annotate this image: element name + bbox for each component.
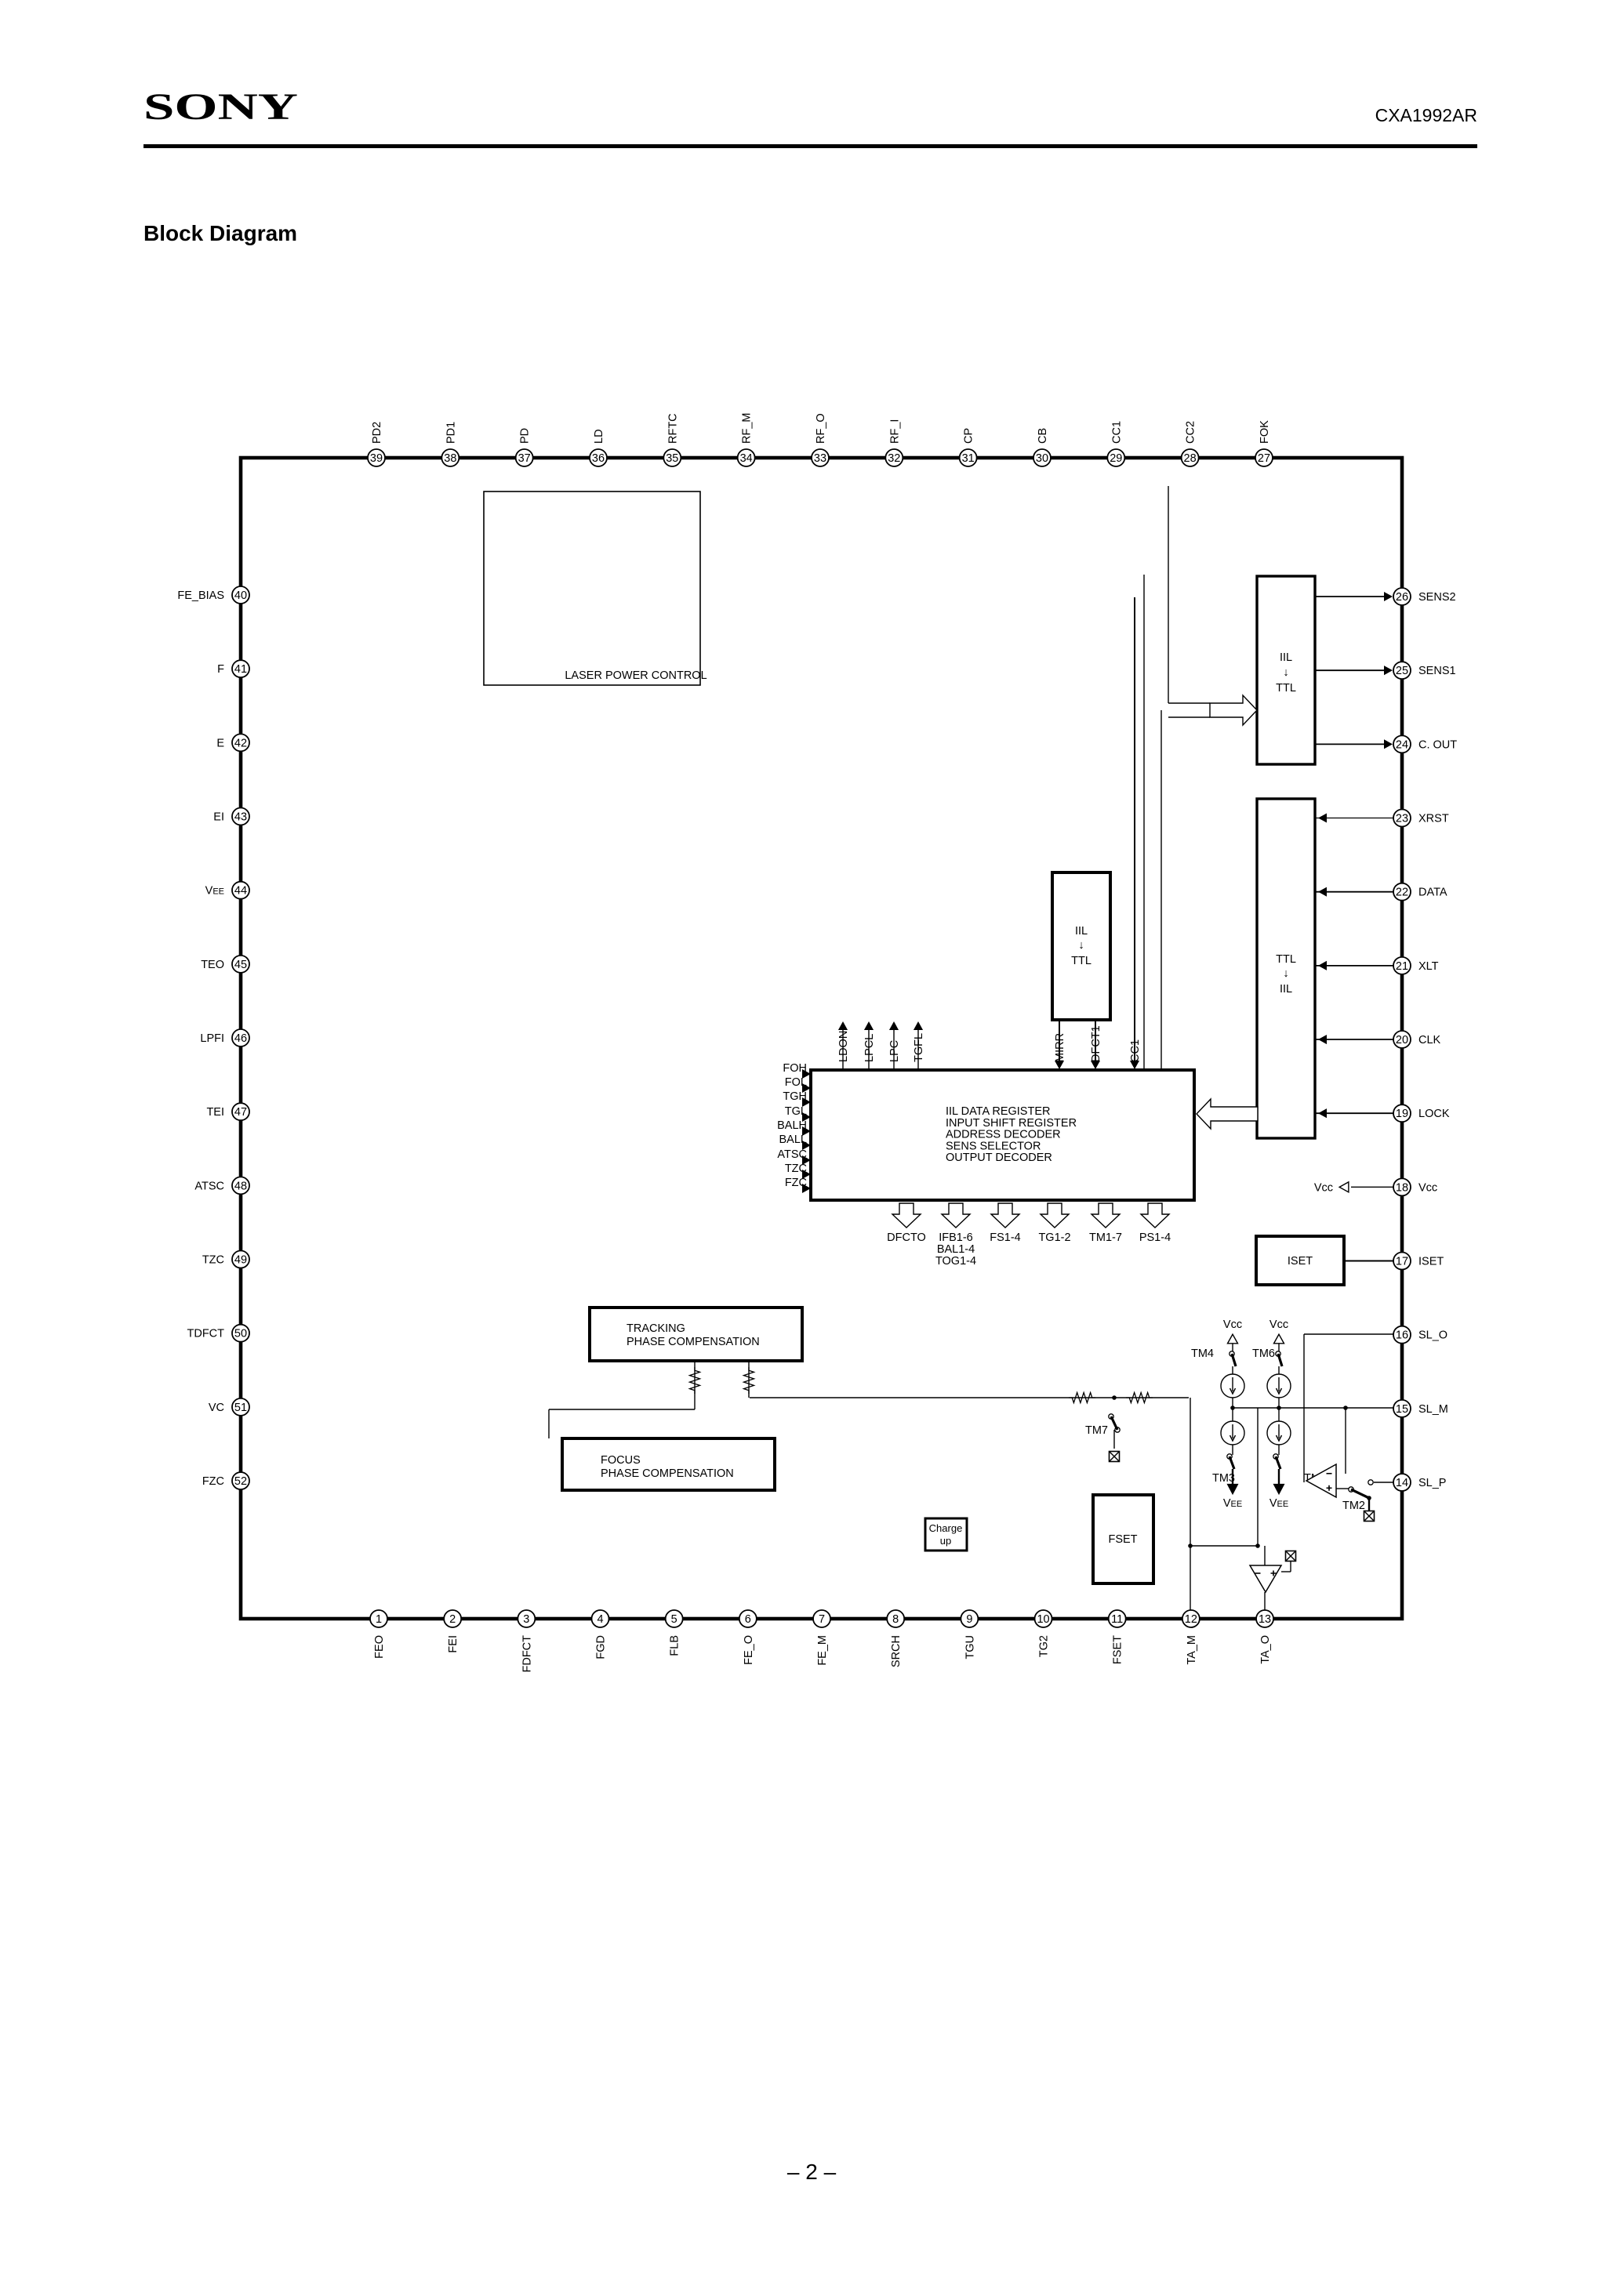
svg-text:TOG1-4: TOG1-4 [935,1255,976,1268]
svg-text:18: 18 [1396,1181,1408,1194]
svg-text:34: 34 [740,452,753,465]
svg-text:SL_O: SL_O [1418,1329,1447,1342]
svg-text:DFCTO: DFCTO [887,1231,926,1244]
svg-text:23: 23 [1396,813,1408,825]
svg-text:↓: ↓ [1283,666,1288,679]
svg-text:VEE: VEE [1269,1497,1288,1510]
svg-text:25: 25 [1396,665,1408,677]
svg-text:TA_O: TA_O [1259,1635,1272,1664]
svg-text:TM6: TM6 [1252,1347,1275,1360]
svg-text:VEE: VEE [205,885,224,898]
svg-text:TDFCT: TDFCT [187,1328,224,1340]
svg-text:TG2: TG2 [1038,1635,1051,1657]
svg-text:40: 40 [234,589,247,602]
svg-text:9: 9 [966,1613,972,1626]
svg-text:17: 17 [1396,1256,1408,1268]
svg-text:20: 20 [1396,1034,1408,1046]
svg-text:PHASE COMPENSATION: PHASE COMPENSATION [601,1467,734,1480]
svg-text:MIRR: MIRR [1054,1033,1066,1062]
svg-text:22: 22 [1396,887,1408,899]
svg-text:Vcc: Vcc [1418,1181,1437,1194]
svg-text:FE_O: FE_O [743,1635,755,1665]
svg-text:1: 1 [376,1613,382,1626]
svg-text:TGU: TGU [964,1635,976,1659]
svg-text:TRACKING: TRACKING [627,1322,685,1335]
svg-text:OUTPUT DECODER: OUTPUT DECODER [946,1152,1052,1164]
svg-text:52: 52 [234,1475,247,1488]
svg-text:33: 33 [814,452,826,465]
svg-text:49: 49 [234,1254,247,1267]
svg-text:E: E [216,737,224,749]
svg-text:41: 41 [234,663,247,676]
svg-text:TEI: TEI [206,1106,224,1119]
svg-text:27: 27 [1258,452,1270,465]
svg-text:ISET: ISET [1288,1255,1313,1268]
svg-text:Vcc: Vcc [1223,1318,1242,1331]
svg-text:46: 46 [234,1032,247,1045]
svg-text:TG1-2: TG1-2 [1038,1231,1070,1244]
svg-text:IIL: IIL [1280,651,1292,664]
svg-text:↓: ↓ [1078,939,1084,952]
svg-text:SL_M: SL_M [1418,1403,1448,1416]
svg-text:CP: CP [963,428,975,444]
svg-text:43: 43 [234,811,247,824]
svg-text:24: 24 [1396,738,1408,751]
svg-text:LPCL: LPCL [863,1034,876,1062]
svg-text:TTL: TTL [1276,953,1296,966]
svg-text:FEI: FEI [447,1635,459,1653]
svg-text:TA_M: TA_M [1186,1635,1198,1665]
svg-text:SENS2: SENS2 [1418,591,1456,604]
svg-text:IIL: IIL [1280,983,1292,996]
svg-text:32: 32 [888,452,900,465]
svg-text:Charge: Charge [929,1522,963,1534]
svg-text:10: 10 [1037,1613,1049,1626]
svg-text:13: 13 [1259,1613,1271,1626]
svg-text:FDFCT: FDFCT [521,1635,533,1673]
svg-text:11: 11 [1111,1613,1123,1626]
svg-text:42: 42 [234,737,247,749]
svg-text:4: 4 [597,1613,603,1626]
svg-text:FLB: FLB [669,1635,681,1656]
svg-text:CLK: CLK [1418,1034,1441,1046]
svg-text:FE_BIAS: FE_BIAS [177,589,224,602]
svg-text:Block Diagram: Block Diagram [143,221,297,245]
svg-text:ATSC: ATSC [194,1180,224,1192]
svg-text:47: 47 [234,1106,247,1119]
svg-text:FSET: FSET [1112,1635,1124,1664]
svg-text:LASER POWER CONTROL: LASER POWER CONTROL [565,669,706,682]
svg-text:LPFI: LPFI [200,1032,224,1045]
svg-text:SRCH: SRCH [890,1635,903,1667]
svg-text:RF_I: RF_I [888,419,901,444]
svg-text:51: 51 [234,1402,247,1414]
svg-text:FZC: FZC [202,1475,224,1488]
svg-text:19: 19 [1396,1108,1408,1120]
svg-text:36: 36 [592,452,605,465]
svg-text:DATA: DATA [1418,887,1447,899]
svg-text:CC1: CC1 [1129,1039,1142,1062]
svg-text:Vcc: Vcc [1314,1181,1333,1194]
svg-text:TTL: TTL [1276,682,1296,695]
svg-text:VEE: VEE [1223,1497,1242,1510]
svg-text:TTL: TTL [1071,955,1092,967]
svg-text:LD: LD [593,429,605,444]
svg-text:16: 16 [1396,1329,1408,1342]
svg-text:TM1-7: TM1-7 [1089,1231,1122,1244]
svg-text:FOCUS: FOCUS [601,1454,641,1467]
svg-text:IIL: IIL [1075,925,1088,938]
svg-text:14: 14 [1396,1477,1408,1489]
svg-text:TM3: TM3 [1212,1472,1235,1485]
svg-text:2: 2 [449,1613,456,1626]
svg-text:CXA1992AR: CXA1992AR [1375,105,1477,125]
svg-text:21: 21 [1396,960,1408,973]
svg-text:TM2: TM2 [1342,1500,1365,1512]
svg-text:38: 38 [444,452,456,465]
svg-text:FSET: FSET [1108,1533,1137,1546]
svg-text:SL_P: SL_P [1418,1477,1446,1489]
svg-text:PD1: PD1 [445,422,457,444]
svg-text:↓: ↓ [1283,967,1288,980]
svg-text:30: 30 [1036,452,1048,465]
svg-text:37: 37 [518,452,531,465]
svg-text:SONY: SONY [143,86,298,128]
svg-text:LOCK: LOCK [1418,1108,1450,1120]
svg-text:FEO: FEO [373,1635,386,1659]
svg-text:FOK: FOK [1259,420,1271,444]
svg-text:12: 12 [1185,1613,1197,1626]
svg-text:XLT: XLT [1418,960,1439,973]
svg-text:C. OUT: C. OUT [1418,738,1457,751]
svg-text:SENS SELECTOR: SENS SELECTOR [946,1140,1041,1152]
svg-text:39: 39 [370,452,383,465]
svg-text:45: 45 [234,959,247,971]
svg-text:CC1: CC1 [1110,421,1123,444]
svg-text:F: F [217,663,224,676]
svg-text:50: 50 [234,1328,247,1340]
svg-text:XRST: XRST [1418,813,1449,825]
svg-text:VC: VC [209,1402,224,1414]
svg-text:15: 15 [1396,1403,1408,1416]
svg-text:48: 48 [234,1180,247,1192]
svg-text:DFCT1: DFCT1 [1090,1025,1102,1062]
svg-text:8: 8 [892,1613,899,1626]
svg-text:CB: CB [1037,428,1049,444]
svg-text:EI: EI [213,811,224,824]
svg-text:FE_M: FE_M [816,1635,829,1666]
svg-text:– 2 –: – 2 – [787,2160,837,2184]
svg-text:35: 35 [666,452,678,465]
svg-text:TM7: TM7 [1085,1424,1108,1437]
svg-text:PS1-4: PS1-4 [1139,1231,1171,1244]
svg-text:ADDRESS DECODER: ADDRESS DECODER [946,1129,1061,1141]
svg-text:RF_O: RF_O [815,413,827,444]
svg-text:RF_M: RF_M [741,413,754,444]
svg-text:FGD: FGD [595,1635,608,1659]
svg-text:TZC: TZC [202,1254,224,1267]
svg-text:PD2: PD2 [371,422,383,444]
svg-text:SENS1: SENS1 [1418,665,1456,677]
svg-text:26: 26 [1396,591,1408,604]
svg-text:FS1-4: FS1-4 [990,1231,1021,1244]
svg-text:IIL DATA REGISTER: IIL DATA REGISTER [946,1105,1050,1118]
svg-text:LDON: LDON [837,1031,850,1062]
svg-text:PD: PD [519,428,532,444]
svg-text:5: 5 [671,1613,677,1626]
svg-text:up: up [940,1535,951,1547]
svg-text:29: 29 [1110,452,1122,465]
svg-text:PHASE COMPENSATION: PHASE COMPENSATION [627,1336,760,1348]
svg-text:IFB1-6: IFB1-6 [939,1231,973,1244]
svg-text:TM4: TM4 [1191,1347,1214,1360]
svg-text:7: 7 [819,1613,825,1626]
svg-text:Vcc: Vcc [1269,1318,1288,1331]
svg-text:RFTC: RFTC [667,413,679,444]
svg-text:BAL1-4: BAL1-4 [937,1243,975,1256]
svg-text:31: 31 [962,452,975,465]
svg-text:3: 3 [523,1613,529,1626]
svg-text:CC2: CC2 [1185,421,1197,444]
svg-text:INPUT SHIFT REGISTER: INPUT SHIFT REGISTER [946,1117,1077,1130]
svg-text:44: 44 [234,885,247,898]
svg-text:ISET: ISET [1418,1256,1444,1268]
svg-text:6: 6 [745,1613,751,1626]
svg-text:TGFL: TGFL [913,1033,925,1062]
svg-text:TEO: TEO [201,959,224,971]
svg-text:28: 28 [1184,452,1197,465]
svg-text:LPC: LPC [888,1040,901,1062]
